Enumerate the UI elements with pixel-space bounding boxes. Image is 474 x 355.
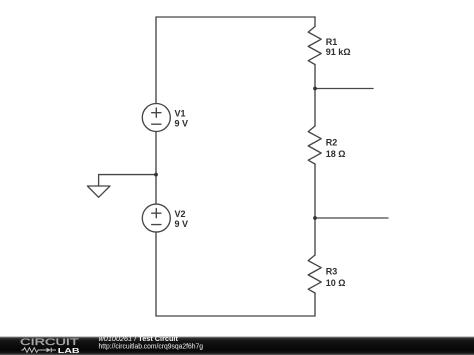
- ground: [87, 186, 110, 197]
- wire left: V2 to bottom corner: [155, 232, 157, 316]
- wire left: top corner to V1: [155, 17, 157, 104]
- svg-text:http://circuitlab.com/crq9sqa2: http://circuitlab.com/crq9sqa2f6h7g: [99, 342, 204, 351]
- logo LAB text: [58, 346, 80, 355]
- svg-text:V2: V2: [175, 209, 186, 219]
- logo diode symbol: [46, 348, 56, 353]
- svg-text:91 kΩ: 91 kΩ: [326, 47, 351, 57]
- svg-text:R2: R2: [326, 137, 338, 147]
- footer title text: [99, 334, 179, 343]
- svg-text:9 V: 9 V: [175, 119, 189, 129]
- wire right: node A to R2: [314, 89, 316, 127]
- wire right: R3 to bottom corner: [314, 293, 316, 316]
- footer bar: [0, 335, 474, 355]
- voltage source V1: [142, 104, 170, 132]
- resistor R2: [308, 126, 321, 164]
- svg-text:R1: R1: [326, 37, 338, 47]
- svg-text:18 Ω: 18 Ω: [326, 149, 346, 159]
- logo resistor zigzag: [21, 348, 46, 353]
- wire right: R1 to node A: [314, 65, 316, 89]
- wire ground horizontal: [99, 175, 156, 186]
- voltage source V2: [142, 204, 170, 232]
- svg-text:9 V: 9 V: [175, 219, 189, 229]
- logo CIRCUIT word: [20, 337, 79, 347]
- resistor R3: [308, 255, 321, 293]
- ground node junction: [154, 173, 158, 177]
- label R1 91 kOhm: [326, 37, 351, 57]
- label V1 9 V: [175, 109, 189, 129]
- node B junction: [313, 216, 317, 220]
- label R2 18 Ohm: [326, 137, 346, 159]
- svg-text:V1: V1: [175, 109, 186, 119]
- svg-text:R3: R3: [326, 267, 338, 277]
- wire right: R2 to node B: [314, 164, 316, 218]
- svg-text:LAB: LAB: [58, 346, 80, 355]
- wire right: node B to R3: [314, 218, 316, 255]
- wire left: V1 to ground node: [155, 132, 157, 205]
- footer url text: [99, 342, 204, 351]
- wire stub node A: [315, 88, 373, 90]
- wire top: [156, 16, 315, 18]
- resistor R1: [308, 27, 321, 65]
- label R3 10 Ohm: [326, 267, 346, 289]
- svg-text:10 Ω: 10 Ω: [326, 278, 346, 288]
- wire stub node B: [315, 217, 388, 219]
- wire right: top corner to R1: [314, 17, 316, 27]
- node A junction: [313, 87, 317, 91]
- wire bottom: [156, 315, 315, 317]
- label V2 9 V: [175, 209, 189, 229]
